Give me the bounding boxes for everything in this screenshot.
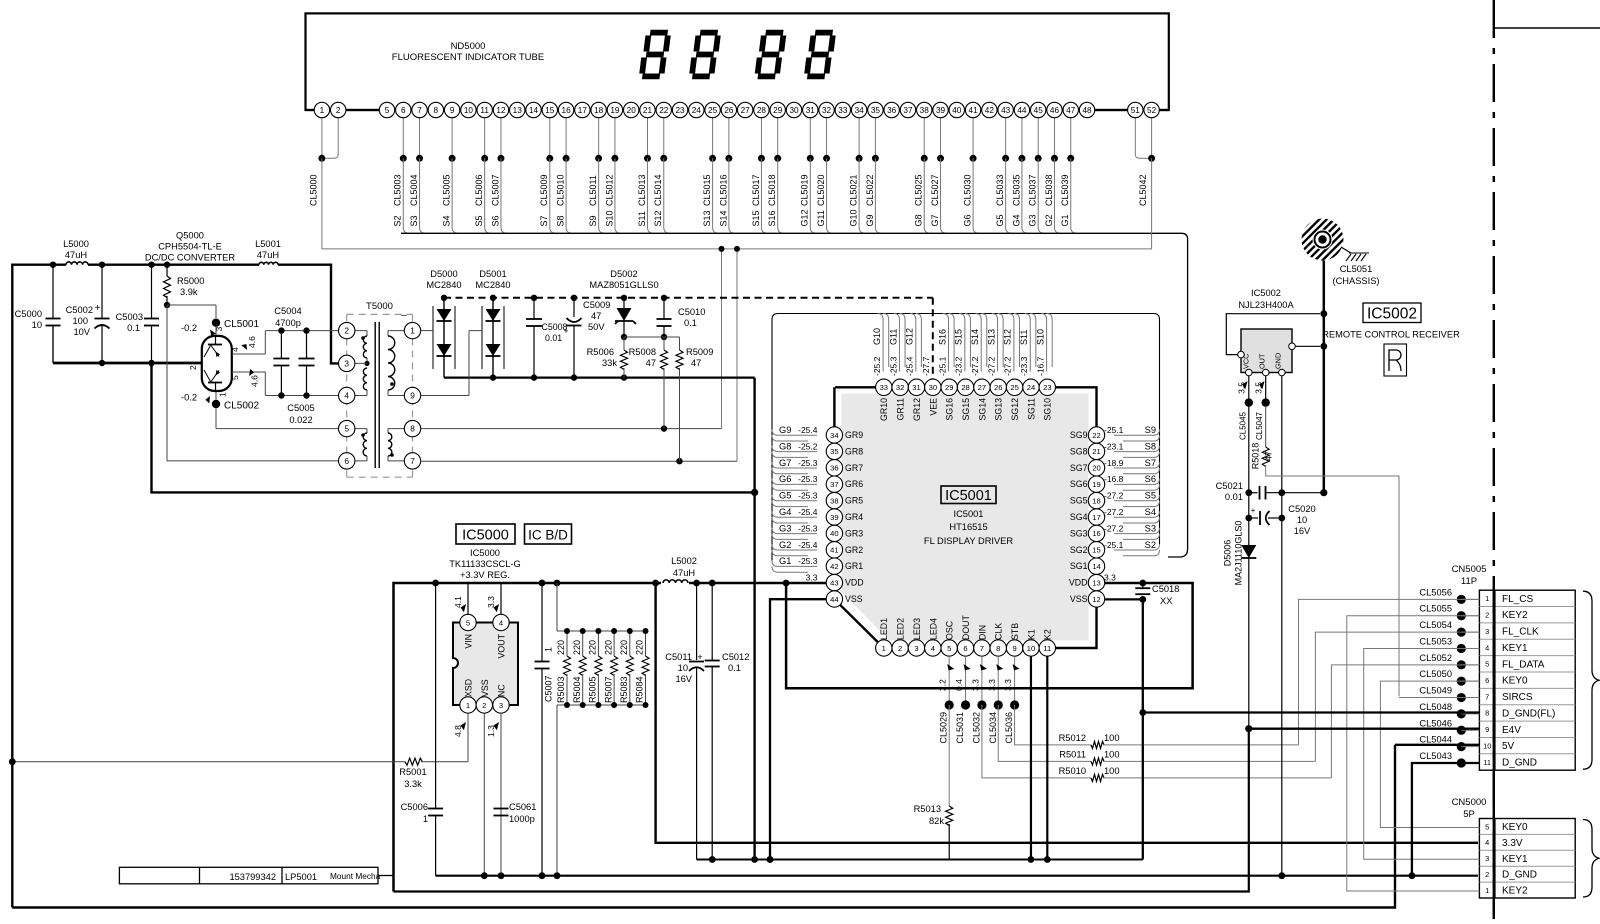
svg-text:CL5005: CL5005: [442, 174, 452, 206]
svg-text:FL_CLK: FL_CLK: [1502, 627, 1539, 638]
svg-text:C5061: C5061: [509, 802, 536, 812]
svg-text:220: 220: [635, 640, 645, 655]
svg-text:25: 25: [708, 106, 718, 115]
svg-text:NJL23H400A: NJL23H400A: [1238, 300, 1294, 310]
svg-text:SG6: SG6: [1070, 479, 1088, 489]
svg-text:R5018: R5018: [1251, 443, 1261, 470]
svg-text:10: 10: [464, 106, 474, 115]
svg-text:33: 33: [880, 383, 888, 392]
svg-text:MC2840: MC2840: [475, 280, 510, 290]
svg-text:SIRCS: SIRCS: [1502, 692, 1533, 703]
svg-text:43: 43: [1001, 106, 1011, 115]
svg-text:3: 3: [214, 327, 224, 332]
svg-text:CL5052: CL5052: [1419, 653, 1452, 663]
svg-text:41: 41: [830, 546, 838, 555]
svg-text:-25.3: -25.3: [798, 556, 818, 566]
svg-text:16: 16: [1092, 529, 1100, 538]
svg-text:9: 9: [1485, 725, 1489, 734]
svg-text:3.3: 3.3: [486, 596, 496, 608]
svg-text:G11: G11: [816, 210, 826, 226]
svg-text:G3: G3: [1028, 214, 1038, 226]
svg-text:R5006: R5006: [587, 347, 614, 357]
svg-text:G8: G8: [914, 214, 924, 226]
svg-text:R5005: R5005: [588, 676, 598, 703]
svg-text:39: 39: [830, 513, 838, 522]
svg-text:S7: S7: [1145, 458, 1156, 468]
svg-text:8: 8: [410, 424, 415, 434]
svg-text:1: 1: [882, 644, 886, 653]
svg-text:11: 11: [1043, 644, 1051, 653]
svg-text:S13: S13: [702, 210, 712, 226]
svg-text:42: 42: [830, 562, 838, 571]
svg-text:47uH: 47uH: [673, 568, 695, 578]
svg-text:-25.4: -25.4: [798, 425, 818, 435]
svg-text:D5001: D5001: [479, 269, 506, 279]
svg-text:5: 5: [385, 106, 390, 115]
svg-text:9: 9: [1012, 644, 1016, 653]
svg-text:28: 28: [757, 106, 767, 115]
svg-text:GR3: GR3: [845, 528, 863, 538]
svg-text:-25.3: -25.3: [798, 458, 818, 468]
svg-text:7: 7: [417, 106, 422, 115]
svg-text:CN5005: CN5005: [1452, 564, 1487, 575]
svg-text:220: 220: [572, 640, 582, 655]
svg-text:IC5001: IC5001: [945, 488, 992, 504]
svg-text:43: 43: [830, 578, 838, 587]
svg-text:24: 24: [1027, 383, 1035, 392]
svg-text:CL5010: CL5010: [555, 174, 565, 206]
svg-text:R5004: R5004: [572, 676, 582, 703]
svg-text:10: 10: [1297, 515, 1307, 525]
svg-text:G5: G5: [779, 491, 791, 501]
svg-text:CL5011: CL5011: [588, 175, 598, 206]
svg-text:GR4: GR4: [845, 512, 863, 522]
svg-text:CL5045: CL5045: [1238, 411, 1247, 440]
svg-text:VSS: VSS: [845, 594, 863, 604]
svg-text:35: 35: [830, 447, 838, 456]
svg-text:17: 17: [1092, 513, 1100, 522]
svg-text:VDD: VDD: [1069, 578, 1088, 588]
svg-text:Mount Mecha: Mount Mecha: [330, 871, 381, 881]
svg-text:31: 31: [912, 383, 920, 392]
svg-text:52: 52: [1147, 106, 1157, 115]
svg-text:ND5000: ND5000: [451, 41, 486, 52]
svg-text:2: 2: [898, 644, 902, 653]
svg-text:100: 100: [72, 316, 88, 326]
svg-text:NC: NC: [497, 684, 507, 697]
svg-text:3.3: 3.3: [806, 573, 818, 583]
svg-text:S14: S14: [718, 210, 728, 226]
svg-text:GR12: GR12: [912, 398, 922, 421]
svg-text:R5012: R5012: [1059, 733, 1086, 743]
svg-text:10V: 10V: [73, 327, 90, 337]
svg-text:-25.2: -25.2: [798, 441, 818, 451]
svg-text:R5009: R5009: [686, 347, 713, 357]
svg-text:-23.2: -23.2: [954, 356, 964, 376]
svg-text:47uH: 47uH: [65, 250, 87, 260]
svg-text:-25.3: -25.3: [798, 474, 818, 484]
svg-text:SG15: SG15: [961, 398, 971, 421]
svg-text:220: 220: [603, 640, 613, 655]
svg-text:DOUT: DOUT: [961, 614, 971, 640]
svg-text:OUT: OUT: [1258, 353, 1267, 369]
svg-text:2: 2: [1485, 870, 1489, 879]
svg-text:15: 15: [1092, 546, 1100, 555]
svg-text:G9: G9: [865, 214, 875, 226]
svg-text:1: 1: [410, 326, 415, 336]
svg-text:CL5009: CL5009: [539, 174, 549, 206]
svg-text:C5021: C5021: [1216, 481, 1243, 491]
svg-text:S3: S3: [409, 215, 419, 226]
svg-text:+: +: [697, 652, 702, 662]
svg-text:G1: G1: [1060, 214, 1070, 226]
svg-text:S3: S3: [1145, 523, 1156, 533]
svg-text:S11: S11: [637, 211, 647, 226]
svg-text:C5009: C5009: [583, 300, 610, 310]
svg-text:C5011: C5011: [665, 652, 692, 662]
svg-text:16V: 16V: [1294, 526, 1311, 536]
svg-text:100: 100: [1104, 766, 1120, 776]
svg-text:-25.2: -25.2: [872, 356, 882, 376]
svg-text:-27.2: -27.2: [986, 356, 996, 376]
svg-text:VDD: VDD: [845, 578, 864, 588]
svg-text:3: 3: [1485, 627, 1489, 636]
svg-text:220: 220: [588, 640, 598, 655]
svg-text:13: 13: [1092, 578, 1100, 587]
svg-text:7: 7: [1485, 692, 1489, 701]
svg-text:CL5043: CL5043: [1419, 751, 1452, 761]
svg-text:VOUT: VOUT: [497, 633, 507, 658]
svg-text:5: 5: [1485, 660, 1489, 669]
svg-text:21: 21: [643, 106, 653, 115]
svg-text:CL5038: CL5038: [1044, 174, 1054, 206]
svg-text:-25.4: -25.4: [905, 356, 915, 376]
svg-text:KEY1: KEY1: [1502, 643, 1528, 654]
svg-text:CL5046: CL5046: [1419, 718, 1452, 728]
svg-text:G11: G11: [888, 329, 898, 345]
svg-text:MAZ8051GLLS0: MAZ8051GLLS0: [589, 280, 658, 290]
svg-text:FLUORESCENT INDICATOR TUBE: FLUORESCENT INDICATOR TUBE: [392, 52, 544, 63]
svg-text:S14: S14: [970, 329, 980, 345]
svg-text:G12: G12: [905, 328, 915, 345]
svg-text:29: 29: [945, 383, 953, 392]
svg-text:L5001: L5001: [255, 239, 281, 249]
svg-text:VEE: VEE: [928, 398, 938, 416]
svg-text:-27.7: -27.7: [921, 356, 931, 376]
svg-text:22: 22: [1092, 431, 1100, 440]
svg-text:D5002: D5002: [610, 269, 637, 279]
svg-text:R5008: R5008: [629, 347, 656, 357]
svg-text:-25.1: -25.1: [1104, 540, 1124, 550]
svg-text:CL5020: CL5020: [816, 174, 826, 206]
svg-text:S12: S12: [1003, 329, 1013, 345]
svg-text:CN5000: CN5000: [1452, 797, 1487, 808]
svg-text:LED4: LED4: [928, 618, 938, 640]
svg-text:S16: S16: [767, 210, 777, 226]
svg-text:13: 13: [513, 106, 523, 115]
svg-text:SG4: SG4: [1070, 512, 1088, 522]
svg-text:IC5000: IC5000: [462, 528, 509, 544]
svg-text:32: 32: [822, 106, 832, 115]
svg-text:SG1: SG1: [1070, 561, 1088, 571]
svg-text:17: 17: [578, 106, 588, 115]
svg-text:LED3: LED3: [912, 618, 922, 640]
svg-text:G4: G4: [1011, 214, 1021, 226]
svg-text:0.022: 0.022: [289, 415, 312, 425]
svg-text:SG2: SG2: [1070, 545, 1088, 555]
svg-text:KEY2: KEY2: [1502, 610, 1528, 621]
svg-text:CL5029: CL5029: [939, 712, 949, 744]
svg-text:6: 6: [401, 106, 406, 115]
svg-text:10: 10: [1027, 644, 1035, 653]
svg-text:FL_DATA: FL_DATA: [1502, 659, 1545, 670]
svg-text:1: 1: [320, 106, 325, 115]
svg-text:10: 10: [32, 320, 42, 330]
svg-text:34: 34: [830, 431, 838, 440]
svg-text:5P: 5P: [1463, 809, 1475, 820]
svg-text:11P: 11P: [1461, 576, 1477, 587]
svg-text:30: 30: [789, 106, 799, 115]
svg-text:8: 8: [996, 644, 1000, 653]
svg-text:D5000: D5000: [430, 269, 457, 279]
svg-text:CPH5504-TL-E: CPH5504-TL-E: [158, 242, 222, 252]
svg-text:SG10: SG10: [1043, 398, 1053, 421]
svg-text:G10: G10: [872, 328, 882, 345]
svg-text:L5002: L5002: [671, 556, 697, 566]
svg-text:100: 100: [1104, 733, 1120, 743]
svg-text:3.3: 3.3: [1104, 573, 1116, 583]
svg-text:S4: S4: [442, 215, 452, 226]
svg-text:CL5006: CL5006: [474, 174, 484, 206]
svg-text:CL5021: CL5021: [849, 174, 859, 206]
svg-text:CL5044: CL5044: [1419, 735, 1452, 745]
svg-text:CL5037: CL5037: [1028, 174, 1038, 206]
svg-text:CL5017: CL5017: [751, 174, 761, 206]
svg-text:G9: G9: [779, 425, 791, 435]
svg-text:2: 2: [1485, 611, 1489, 620]
svg-text:S2: S2: [393, 215, 403, 226]
svg-text:GR9: GR9: [845, 430, 863, 440]
svg-text:4: 4: [344, 391, 349, 401]
svg-text:S5: S5: [474, 215, 484, 226]
svg-text:CL5022: CL5022: [865, 174, 875, 206]
svg-text:5: 5: [947, 644, 951, 653]
svg-text:30: 30: [929, 383, 937, 392]
svg-text:S4: S4: [1145, 507, 1156, 517]
svg-text:R5003: R5003: [556, 676, 566, 703]
svg-text:R5001: R5001: [399, 767, 426, 777]
svg-text:4.1: 4.1: [453, 596, 463, 608]
svg-text:VSS: VSS: [1070, 594, 1088, 604]
svg-text:+: +: [95, 303, 101, 314]
svg-text:C5020: C5020: [1288, 504, 1315, 514]
svg-text:1: 1: [218, 392, 228, 397]
svg-text:3: 3: [1485, 854, 1489, 863]
svg-text:CL5050: CL5050: [1419, 669, 1452, 679]
svg-text:-27.2: -27.2: [1104, 491, 1124, 501]
svg-text:23: 23: [1043, 383, 1051, 392]
svg-text:S15: S15: [954, 329, 964, 345]
svg-text:-27.2: -27.2: [1104, 507, 1124, 517]
svg-text:S16: S16: [937, 329, 947, 345]
svg-text:GR1: GR1: [845, 561, 863, 571]
svg-text:STB: STB: [1010, 623, 1020, 640]
svg-text:GR7: GR7: [845, 463, 863, 473]
svg-text:CL5002: CL5002: [224, 400, 259, 411]
svg-text:38: 38: [920, 106, 930, 115]
svg-text:21: 21: [1092, 447, 1100, 456]
svg-text:3: 3: [499, 701, 503, 710]
svg-text:+: +: [1251, 506, 1256, 515]
svg-text:-16.7: -16.7: [1035, 356, 1045, 376]
svg-text:CL5000: CL5000: [309, 174, 319, 206]
svg-text:GR2: GR2: [845, 545, 863, 555]
svg-text:4: 4: [1485, 838, 1489, 847]
svg-text:DC/DC CONVERTER: DC/DC CONVERTER: [145, 253, 236, 263]
svg-text:LED1: LED1: [879, 618, 889, 640]
svg-text:50V: 50V: [588, 322, 605, 332]
svg-text:SG7: SG7: [1070, 463, 1088, 473]
svg-text:20: 20: [627, 106, 637, 115]
svg-text:C5003: C5003: [116, 312, 143, 322]
svg-text:SG8: SG8: [1070, 446, 1088, 456]
svg-text:S8: S8: [555, 215, 565, 226]
svg-text:G6: G6: [962, 214, 972, 226]
svg-text:100: 100: [1104, 750, 1120, 760]
svg-text:TK11133CSCL-G: TK11133CSCL-G: [449, 559, 520, 569]
svg-text:4700p: 4700p: [275, 318, 301, 328]
svg-text:G12: G12: [800, 209, 810, 226]
svg-text:LED2: LED2: [896, 618, 906, 640]
svg-text:37: 37: [830, 480, 838, 489]
svg-text:42: 42: [985, 106, 995, 115]
svg-text:4.6: 4.6: [250, 375, 260, 387]
svg-text:2: 2: [336, 106, 341, 115]
svg-text:T5000: T5000: [366, 301, 393, 312]
svg-text:-23.1: -23.1: [1104, 441, 1124, 451]
svg-text:(CHASSIS): (CHASSIS): [1332, 276, 1379, 286]
svg-text:8: 8: [434, 106, 439, 115]
svg-text:IC5002: IC5002: [1251, 288, 1281, 298]
svg-text:26: 26: [724, 106, 734, 115]
svg-text:11: 11: [480, 106, 489, 115]
svg-text:E4V: E4V: [1502, 725, 1521, 736]
svg-text:S9: S9: [1145, 425, 1156, 435]
svg-text:LP5001: LP5001: [285, 872, 317, 882]
svg-text:FL DISPLAY DRIVER: FL DISPLAY DRIVER: [924, 536, 1013, 546]
svg-text:SG11: SG11: [1026, 398, 1036, 420]
svg-text:C5010: C5010: [678, 307, 705, 317]
svg-text:IC5001: IC5001: [954, 509, 984, 519]
svg-text:46: 46: [1050, 106, 1060, 115]
svg-text:VIN: VIN: [464, 634, 474, 649]
svg-text:R5007: R5007: [603, 676, 613, 703]
svg-text:-18.9: -18.9: [1104, 458, 1124, 468]
svg-text:C5007: C5007: [544, 675, 554, 702]
svg-text:-27.2: -27.2: [1003, 356, 1013, 376]
svg-text:CL5001: CL5001: [224, 319, 259, 330]
svg-text:OSC: OSC: [945, 620, 955, 640]
svg-text:CL5032: CL5032: [971, 712, 981, 744]
svg-text:CL5025: CL5025: [914, 174, 924, 206]
svg-text:8: 8: [1485, 709, 1489, 718]
svg-text:1: 1: [466, 701, 470, 710]
svg-text:32: 32: [896, 383, 904, 392]
svg-text:MC2840: MC2840: [426, 280, 461, 290]
svg-text:CL5031: CL5031: [955, 712, 965, 744]
svg-text:CL5036: CL5036: [1004, 712, 1014, 744]
svg-text:K1: K1: [1026, 629, 1036, 640]
svg-text:3: 3: [344, 358, 349, 368]
svg-text:C5004: C5004: [274, 306, 301, 316]
svg-text:36: 36: [830, 464, 838, 473]
svg-text:1: 1: [423, 814, 428, 824]
svg-text:CLK: CLK: [994, 623, 1004, 640]
svg-text:35: 35: [871, 106, 881, 115]
svg-text:220: 220: [556, 640, 566, 655]
svg-text:G2: G2: [779, 540, 791, 550]
svg-text:G4: G4: [779, 507, 791, 517]
svg-text:C5006: C5006: [401, 802, 428, 812]
svg-text:XSD: XSD: [464, 679, 474, 697]
svg-text:5: 5: [1485, 822, 1489, 831]
svg-text:G6: G6: [779, 474, 791, 484]
svg-text:14: 14: [529, 106, 539, 115]
svg-text:44: 44: [830, 595, 838, 604]
svg-text:0.1: 0.1: [728, 663, 741, 673]
svg-text:CL5049: CL5049: [1419, 686, 1452, 696]
svg-text:CL5042: CL5042: [1138, 174, 1148, 206]
svg-text:38: 38: [830, 496, 838, 505]
svg-text:VCC: VCC: [1241, 354, 1250, 369]
svg-text:K2: K2: [1043, 629, 1053, 640]
svg-text:D_GND: D_GND: [1502, 870, 1537, 881]
svg-text:C5012: C5012: [722, 652, 749, 662]
svg-text:SG12: SG12: [1010, 398, 1020, 421]
svg-text:45: 45: [1034, 106, 1044, 115]
svg-text:CL5004: CL5004: [409, 174, 419, 206]
svg-text:5: 5: [230, 375, 240, 380]
svg-text:FL_CS: FL_CS: [1502, 594, 1533, 605]
svg-text:-23.3: -23.3: [1019, 356, 1029, 376]
svg-text:CL5034: CL5034: [988, 712, 998, 744]
svg-text:6: 6: [344, 456, 349, 466]
svg-text:D_GND(FL): D_GND(FL): [1502, 708, 1555, 719]
svg-text:3.3k: 3.3k: [404, 779, 422, 789]
svg-text:10: 10: [678, 663, 688, 673]
svg-text:KEY0: KEY0: [1502, 822, 1528, 833]
svg-text:14: 14: [1092, 562, 1100, 571]
svg-text:D5006: D5006: [1223, 540, 1233, 567]
svg-text:2: 2: [482, 701, 486, 710]
svg-text:25: 25: [1010, 383, 1018, 392]
svg-text:IC B/D: IC B/D: [528, 528, 568, 543]
svg-text:47: 47: [646, 358, 656, 368]
svg-text:10: 10: [1483, 741, 1491, 750]
svg-text:KEY1: KEY1: [1502, 854, 1528, 865]
svg-text:-27.2: -27.2: [970, 356, 980, 376]
svg-text:CL5016: CL5016: [718, 174, 728, 206]
svg-text:26: 26: [994, 383, 1002, 392]
svg-text:4.6: 4.6: [247, 336, 257, 348]
svg-text:CL5055: CL5055: [1419, 604, 1452, 614]
svg-text:C5005: C5005: [287, 403, 314, 413]
svg-text:GR11: GR11: [896, 398, 906, 420]
svg-text:7: 7: [410, 456, 415, 466]
svg-text:GR8: GR8: [845, 446, 863, 456]
svg-text:36: 36: [887, 106, 897, 115]
svg-text:S9: S9: [588, 215, 598, 226]
